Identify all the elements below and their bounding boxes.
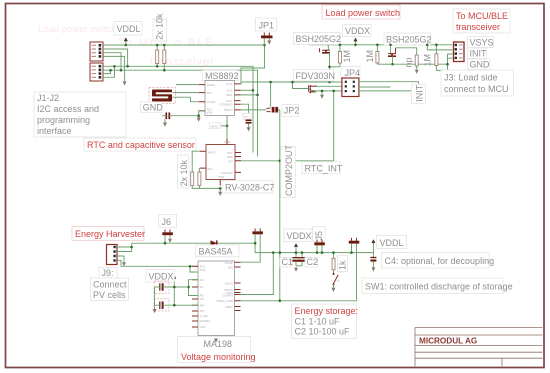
wire J9 pin2 xyxy=(117,247,132,252)
jumper JP2 xyxy=(267,105,300,117)
label BAS45A xyxy=(196,245,240,257)
label INIT at J3 xyxy=(468,48,488,59)
label Energy Harvester xyxy=(72,227,145,241)
svg-text:AI4: AI4 xyxy=(200,303,205,307)
svg-text:SU: SU xyxy=(200,285,204,289)
wire bottom return rail xyxy=(241,300,357,302)
capacitive sensor element xyxy=(149,88,176,104)
svg-text:MODE2: MODE2 xyxy=(200,319,211,323)
jumper JP1 xyxy=(256,18,277,45)
svg-text:COMP2OUT: COMP2OUT xyxy=(284,144,294,196)
junction dots VDDX rail xyxy=(339,44,438,47)
label VDDX top xyxy=(343,25,372,37)
svg-text:1M: 1M xyxy=(423,54,433,67)
svg-text:VDDT: VDDT xyxy=(225,305,233,309)
wire MA198 COMP pins right xyxy=(241,253,274,295)
wire J1 pin3 jog xyxy=(103,53,121,70)
svg-text:JP4: JP4 xyxy=(345,68,361,78)
wire SCL rail xyxy=(103,66,253,152)
wire RTC EVI to resistor xyxy=(198,168,201,172)
svg-text:Voltage monitoring: Voltage monitoring xyxy=(181,352,256,362)
wire SDA rail xyxy=(103,70,258,156)
wire J2 pin3 jog xyxy=(103,70,111,73)
svg-text:VDDL: VDDL xyxy=(117,24,141,34)
svg-text:BSH205G2: BSH205G2 xyxy=(386,35,432,45)
svg-text:C4: optional, for decoupling: C4: optional, for decoupling xyxy=(385,256,495,266)
wire MS8892 OUT stub xyxy=(240,82,243,84)
wire Q3 source ground stub xyxy=(321,91,323,95)
transistor Q1 BSH205G2 xyxy=(320,45,331,53)
wire VDDX rail xyxy=(309,44,453,46)
connector J3 xyxy=(454,42,465,62)
wire J9 pin3 to ground xyxy=(117,256,124,262)
svg-text:I2C access and: I2C access and xyxy=(37,104,99,114)
capacitor C? at MS8892 xyxy=(243,113,252,127)
capacitor C5 xyxy=(154,281,189,294)
svg-text:INIT: INIT xyxy=(470,49,488,59)
svg-text:AI1: AI1 xyxy=(200,278,205,282)
label Connect PV cells xyxy=(91,278,129,301)
label VDDL lower xyxy=(377,236,407,249)
wire 1M to Q1 drain xyxy=(330,66,340,68)
svg-text:PWM_LVDS: PWM_LVDS xyxy=(216,299,233,303)
svg-text:SCL: SCL xyxy=(227,89,233,93)
svg-text:To MCU/BLE: To MCU/BLE xyxy=(456,11,508,21)
wire MS8892 pin to cap C? xyxy=(241,104,249,119)
svg-text:INIT: INIT xyxy=(415,84,425,102)
svg-text:1M: 1M xyxy=(342,50,352,63)
wire Q2 drain to J3 xyxy=(393,56,448,64)
ground arrow MS8892 VSS xyxy=(197,118,201,122)
wire sensor to MS8892 pin3 xyxy=(173,97,200,102)
supply symbol VDDX top xyxy=(354,38,358,45)
label 2x 10k lower xyxy=(178,155,190,188)
svg-text:AIN: AIN xyxy=(207,91,212,95)
svg-text:BAS45A: BAS45A xyxy=(199,246,233,256)
svg-text:J3: Load side: J3: Load side xyxy=(444,73,498,83)
label To MCU/BLE transceiver xyxy=(453,9,510,33)
transistor Q3 FDV303N xyxy=(309,85,316,93)
svg-text:MS8892: MS8892 xyxy=(205,71,239,81)
label GND at J3 xyxy=(468,59,491,70)
svg-text:programming: programming xyxy=(37,115,90,125)
resistor R rtc 1 xyxy=(191,172,194,186)
ground arrow J9 xyxy=(122,262,126,266)
capacitor C2 xyxy=(296,253,306,266)
ground arrow below C1 C2 xyxy=(294,268,298,272)
svg-text:VDDX: VDDX xyxy=(149,272,174,282)
supply symbol VDDX mid xyxy=(294,243,298,252)
svg-text:INT: INT xyxy=(228,159,233,163)
wire JP2 up branch xyxy=(270,82,272,107)
wire MA198 AC2 jog xyxy=(190,266,198,272)
svg-text:EVI: EVI xyxy=(208,167,213,171)
ground arrow below J1-J2 xyxy=(123,81,127,85)
svg-text:C2: C2 xyxy=(307,257,319,267)
label GND xyxy=(141,102,164,113)
label RTC_INT xyxy=(302,162,343,174)
capacitor C6 xyxy=(154,299,198,312)
svg-text:transceiver: transceiver xyxy=(456,22,500,32)
label J1-J2 I2C access text xyxy=(34,92,126,137)
svg-text:PV cells: PV cells xyxy=(93,290,126,300)
svg-text:AI5: AI5 xyxy=(200,309,205,313)
svg-text:TCGNDIO: TCGNDIO xyxy=(219,102,233,106)
capacitor below sensor xyxy=(162,113,199,123)
ground arrow below sensor cap xyxy=(163,123,167,127)
wire MS8892 pin1 left xyxy=(176,84,199,86)
wire J3 INIT pin xyxy=(427,45,452,50)
svg-text:VBCK: VBCK xyxy=(208,151,216,155)
svg-text:VDD: VDD xyxy=(224,140,231,144)
wire Q2 gate to np resistor xyxy=(396,48,417,55)
wire RTC VBCK to resistor xyxy=(192,151,200,172)
ground arrow below SW1 xyxy=(332,288,336,292)
wire JP4 mid right xyxy=(359,86,391,88)
svg-text:C1 1-10 uF: C1 1-10 uF xyxy=(295,317,341,327)
op-amp/IC U1 MS8892 xyxy=(199,70,241,115)
IC U2 RV-3028-C7 xyxy=(200,139,241,186)
svg-text:np: np xyxy=(404,57,414,67)
svg-text:CLKIN: CLKIN xyxy=(207,100,216,104)
svg-text:1k: 1k xyxy=(338,260,348,270)
wire Q1 drain down xyxy=(329,53,331,82)
wire J1 pin4 drop xyxy=(103,56,125,81)
label VDDL top xyxy=(114,22,142,36)
supply symbol VDDL lower xyxy=(371,239,375,257)
svg-text:interface: interface xyxy=(37,126,72,136)
resistor R 1k xyxy=(332,253,348,274)
ground arrow at J6 xyxy=(168,239,172,243)
resistor R 1M second xyxy=(365,45,379,64)
label C2 xyxy=(305,257,318,267)
wire 1M second bottom to drain rail xyxy=(377,63,392,65)
label BSH205G2 second xyxy=(384,33,432,45)
wire J9 pin1 to harvest rail xyxy=(117,243,132,247)
wire JP4 bottom right xyxy=(359,90,411,92)
node BLAC xyxy=(210,123,229,129)
wire resistor bottoms to ground xyxy=(192,186,220,192)
label INIT vertical xyxy=(412,84,426,104)
svg-text:HOLD: HOLD xyxy=(225,282,234,286)
wire J9 pin4 to lower rail xyxy=(117,260,121,266)
svg-text:GND: GND xyxy=(470,60,491,70)
wire sensor to MS8892 pin2 xyxy=(173,92,200,94)
junction dots I2C bus xyxy=(252,89,255,92)
svg-text:BLAC: BLAC xyxy=(211,124,220,128)
supply symbol VDDL top xyxy=(124,37,128,45)
svg-text:COMP2: COMP2 xyxy=(222,294,233,298)
svg-text:S_AI6: S_AI6 xyxy=(200,314,209,318)
svg-text:VDDX: VDDX xyxy=(345,26,370,36)
label RTC and capacitive sensor xyxy=(84,138,196,151)
label C1 xyxy=(280,257,293,267)
resistor R np xyxy=(404,55,419,70)
resistor R 1M third xyxy=(423,45,438,71)
label VDDX lower xyxy=(146,270,175,283)
ground arrow below np xyxy=(415,70,419,74)
svg-text:AI3: AI3 xyxy=(200,297,205,301)
wire switched output long xyxy=(241,81,342,83)
svg-text:Energy Harvester: Energy Harvester xyxy=(75,229,145,239)
supply symbol VDDX lower xyxy=(172,275,176,305)
resistor R 1M first xyxy=(338,45,352,67)
wire MS8892 bottom to RTC xyxy=(226,116,228,145)
ground arrow at JP1 xyxy=(267,41,271,45)
title block frame xyxy=(415,328,543,367)
svg-text:VDDL: VDDL xyxy=(380,238,404,248)
capacitor C4 xyxy=(370,258,376,268)
svg-text:MICRODUL AG: MICRODUL AG xyxy=(419,337,477,346)
label COMP2OUT xyxy=(281,144,296,197)
label J3 Load side connect to MCU xyxy=(441,70,514,96)
junction dots top-left xyxy=(109,44,165,72)
svg-text:MA198: MA198 xyxy=(204,339,233,349)
label Energy storage C1 C2 xyxy=(292,304,359,339)
resistor R pullup 2 xyxy=(163,45,166,70)
label FDV303N xyxy=(294,70,336,82)
wire caps left side ground xyxy=(154,287,156,309)
jumper J6 xyxy=(159,215,177,244)
label RV-3028-C7 xyxy=(222,181,274,194)
transistor Q2 BSH205G2 xyxy=(388,45,396,56)
wire storage rail xyxy=(255,252,373,254)
switch SW1 contact xyxy=(333,273,341,288)
jumper SW1 discharge xyxy=(349,238,360,301)
wire MS8892 to JP2 xyxy=(241,109,267,111)
svg-text:GND: GND xyxy=(143,103,164,113)
label MA198 xyxy=(178,337,256,363)
svg-text:VSYS: VSYS xyxy=(470,38,494,48)
svg-text:Load power switch: Load power switch xyxy=(326,8,401,18)
svg-text:VDDA: VDDA xyxy=(207,83,215,87)
svg-text:C2 10-100 uF: C2 10-100 uF xyxy=(295,327,351,337)
svg-text:PGAP: PGAP xyxy=(225,261,233,265)
label VSYS xyxy=(468,37,494,48)
diode D1 BAS45A xyxy=(211,240,217,246)
svg-text:VSS: VSS xyxy=(218,175,224,179)
label C4 optional for decoupling xyxy=(382,253,495,269)
label SW1 controlled discharge of storage xyxy=(362,278,513,294)
svg-text:J?: J? xyxy=(337,279,341,283)
connector J2 xyxy=(90,63,103,81)
svg-text:connect to MCU: connect to MCU xyxy=(444,84,509,94)
resistor R pullup 1 xyxy=(156,45,159,66)
ground arrow below caps xyxy=(153,309,157,313)
wire VDDL rail xyxy=(103,44,265,46)
svg-text:2x 10k: 2x 10k xyxy=(155,13,165,40)
svg-text:2x 10k: 2x 10k xyxy=(179,159,189,186)
wire J1 pin2 jog xyxy=(103,49,128,66)
jumper J5 xyxy=(313,227,326,253)
svg-text:VDDX: VDDX xyxy=(287,231,312,241)
capacitor C1 xyxy=(292,253,299,266)
svg-text:SDON: SDON xyxy=(224,108,233,112)
label BSH205G2 first xyxy=(294,33,342,45)
wire Q3 drain to JP4 xyxy=(316,85,342,87)
wire Q3 source to JP4 xyxy=(310,90,342,92)
ground arrow below MA198 xyxy=(214,339,218,343)
wire J2 pin4 jog xyxy=(103,66,115,77)
wire MA198 AI1-AI2 bus xyxy=(189,280,199,296)
svg-text:FDV303N: FDV303N xyxy=(296,71,336,81)
wire JP4 to RTC_INT xyxy=(333,91,335,161)
svg-text:1M: 1M xyxy=(365,50,375,63)
svg-text:J5: J5 xyxy=(314,231,324,241)
svg-text:RTC and capacitive sensor: RTC and capacitive sensor xyxy=(87,140,195,150)
wire MS8892 SDA to bus xyxy=(241,94,258,96)
svg-text:Energy storage:: Energy storage: xyxy=(295,306,359,316)
connector J1 xyxy=(90,42,103,61)
svg-text:VSS: VSS xyxy=(207,111,213,115)
svg-text:Load power switch: Load power switch xyxy=(38,24,117,35)
wire MS8892 VSS to ground xyxy=(199,111,205,118)
svg-text:SW1: controlled discharge of s: SW1: controlled discharge of storage xyxy=(365,282,513,292)
label Load power switch xyxy=(322,5,400,19)
svg-text:AC2: AC2 xyxy=(200,268,206,272)
svg-text:SDA: SDA xyxy=(226,93,232,97)
svg-text:OUT: OUT xyxy=(226,82,233,86)
svg-text:RTC_INT: RTC_INT xyxy=(305,163,343,173)
label 2x 10k top xyxy=(153,13,167,41)
ground arrow below Q3 xyxy=(320,95,324,99)
svg-text:RV-3028-C7: RV-3028-C7 xyxy=(225,183,274,193)
wire harvester rail xyxy=(132,242,256,244)
svg-text:DIS: DIS xyxy=(228,266,233,270)
svg-text:J9:: J9: xyxy=(102,268,114,278)
jumper block JP4 xyxy=(341,67,360,97)
svg-text:C1: C1 xyxy=(282,257,294,267)
wire COMP2OUT vertical xyxy=(278,110,280,301)
wire JP1 net chain xyxy=(241,45,265,82)
wire jumper to MA198 sense pin xyxy=(241,261,261,263)
IC U3 MA198 xyxy=(192,261,241,339)
svg-text:Connect: Connect xyxy=(93,280,127,290)
resistor R rtc 2 xyxy=(198,172,201,186)
ground arrow below C4 xyxy=(371,267,375,271)
ground arrow below RTC xyxy=(218,192,222,196)
wire MS8892 SCL to bus xyxy=(241,89,254,91)
wire 1M third to J3 GND pin xyxy=(436,54,452,70)
label J9 xyxy=(99,268,117,279)
svg-text:JP2: JP2 xyxy=(284,106,300,116)
jumper JP3 storage select xyxy=(252,229,263,263)
junction node VSS decoupling xyxy=(197,114,200,117)
ground arrow at cap C? xyxy=(247,127,251,131)
wire JP4 to INIT label xyxy=(359,82,419,85)
svg-text:VSS: VSS xyxy=(200,325,206,329)
svg-text:J1-J2: J1-J2 xyxy=(37,93,59,103)
label VDDX mid xyxy=(284,229,312,242)
svg-text:JP1: JP1 xyxy=(259,20,275,30)
svg-text:J6: J6 xyxy=(162,217,172,227)
svg-text:C?: C? xyxy=(244,115,248,119)
connector J9 xyxy=(107,245,118,265)
svg-text:BSH205G2: BSH205G2 xyxy=(296,34,342,44)
svg-text:SDA: SDA xyxy=(227,155,233,159)
wire Q3 gate xyxy=(293,82,309,89)
wire lower rail to MA198 xyxy=(121,265,198,267)
wire RTC INT / RTC_INT rail xyxy=(241,160,334,162)
